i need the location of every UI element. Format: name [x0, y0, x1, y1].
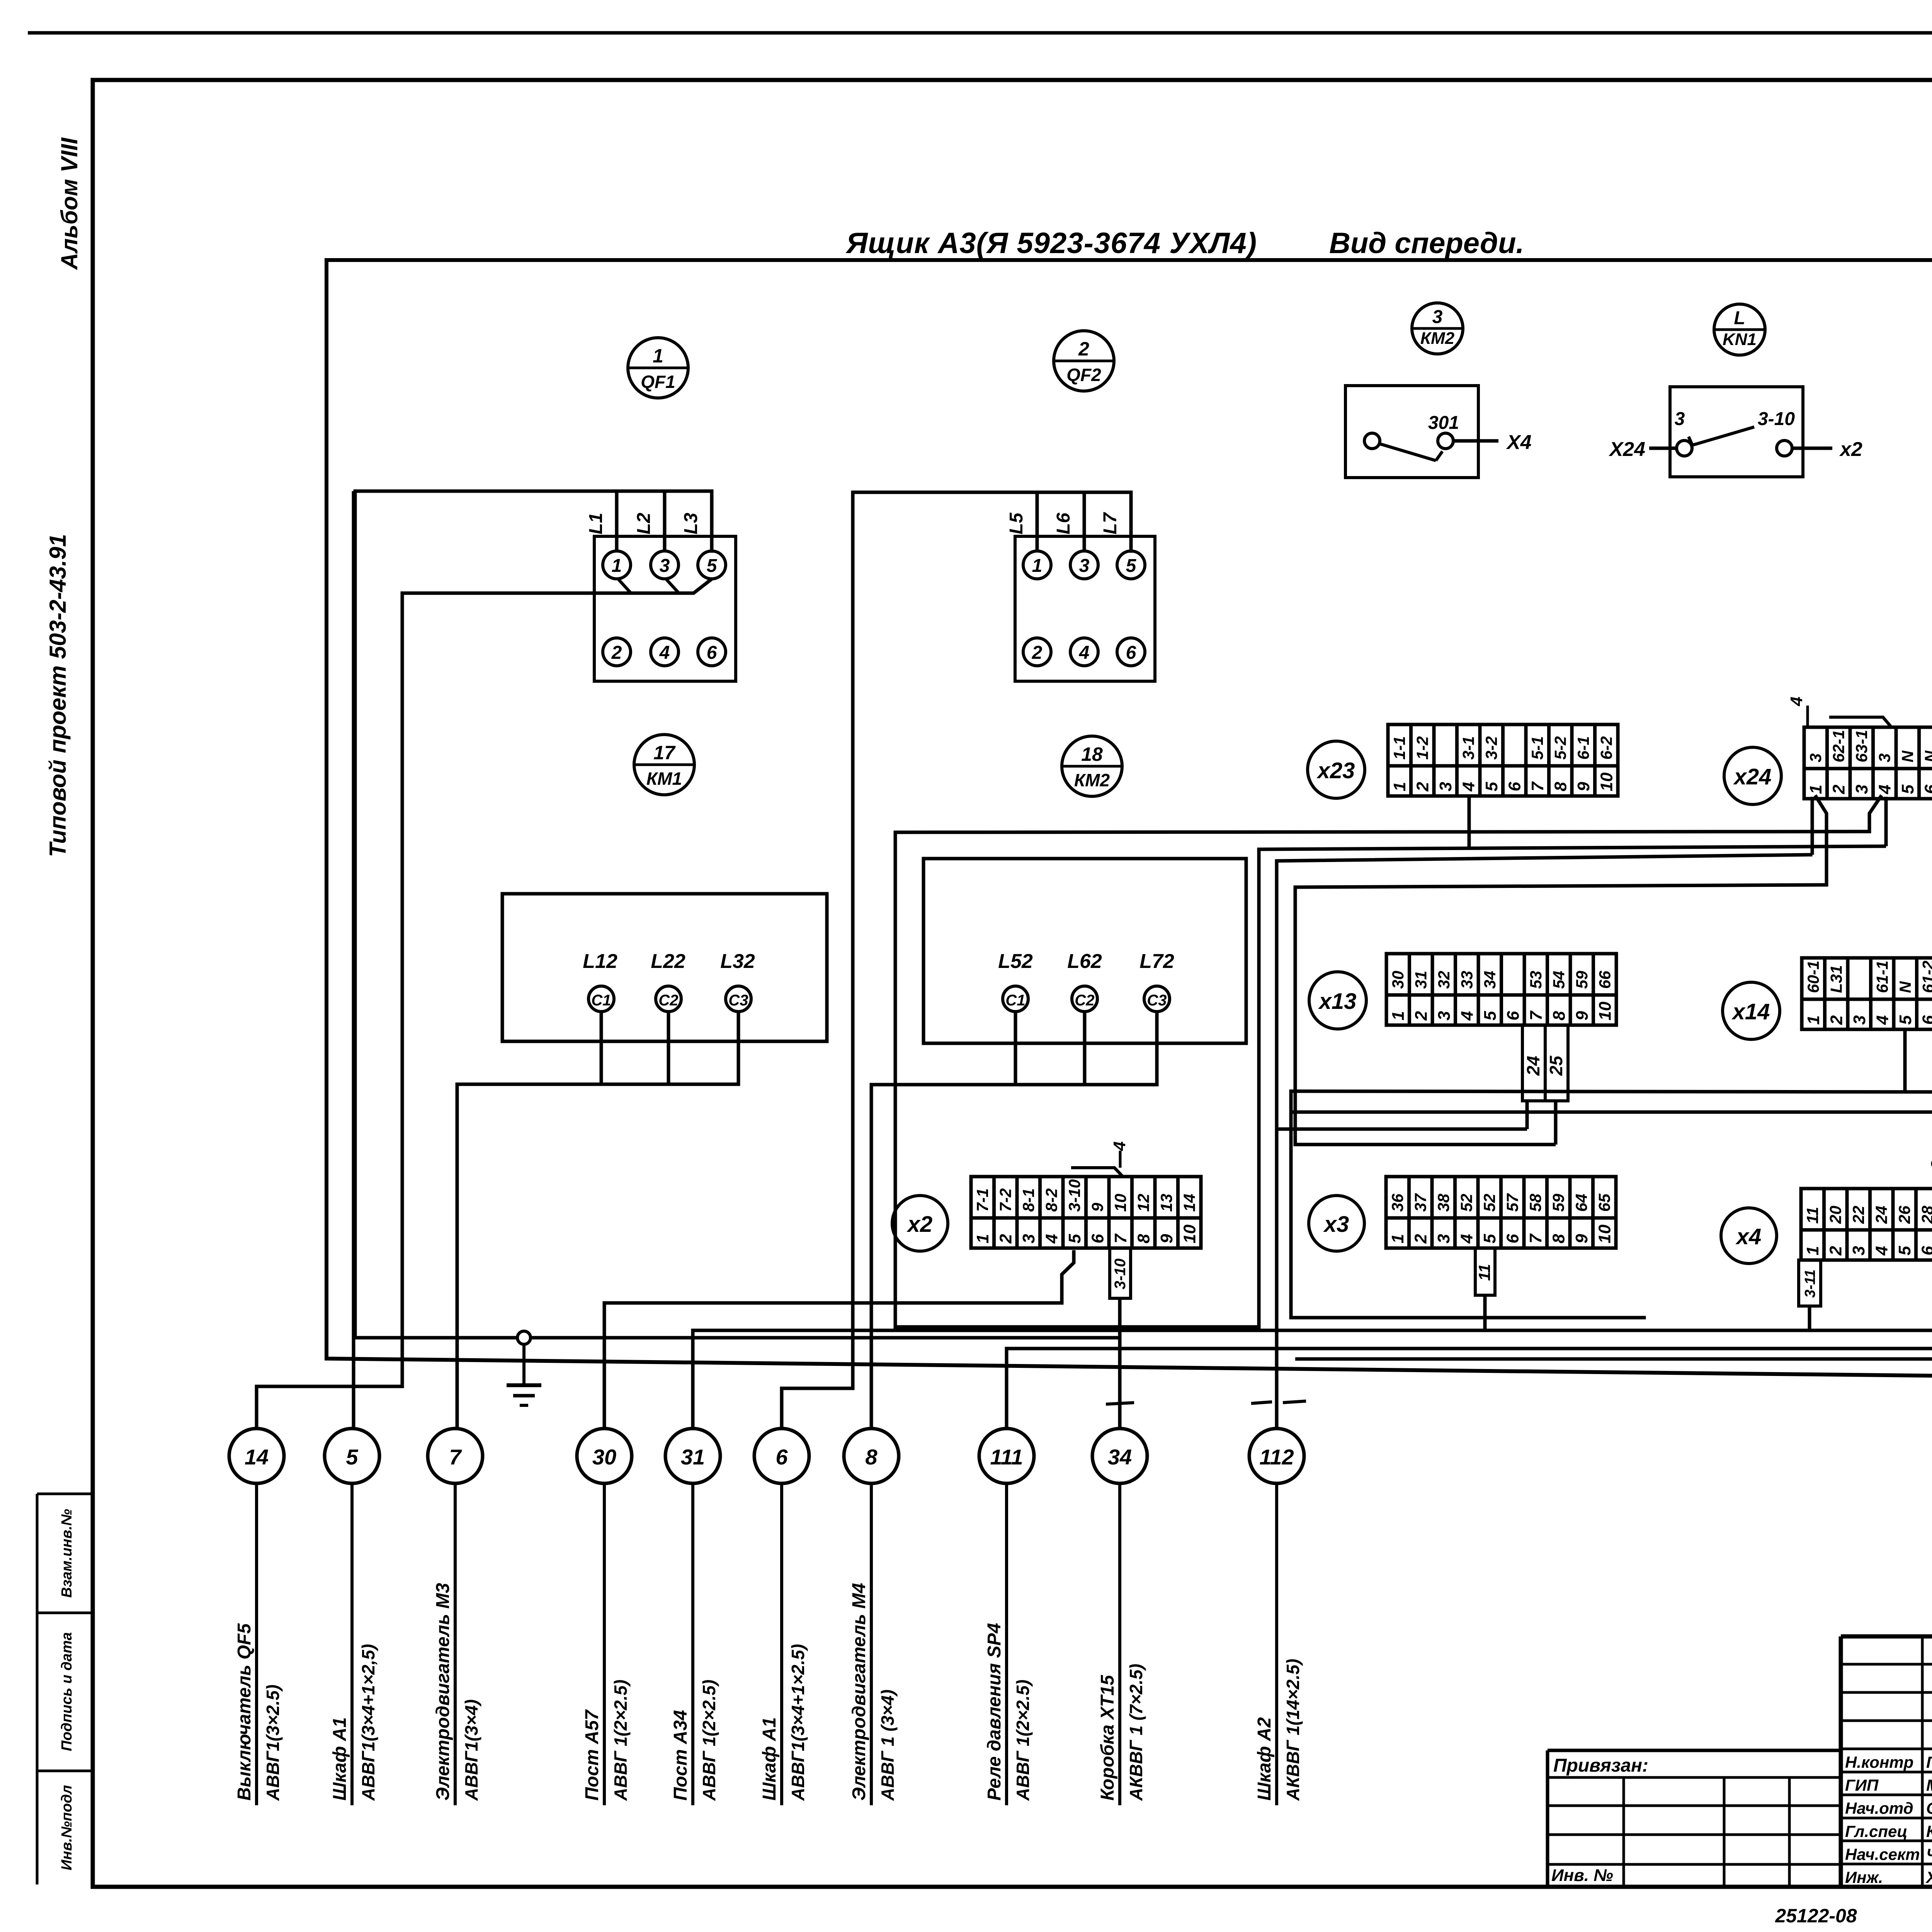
wire cable 30 down	[603, 1483, 606, 1805]
svg-text:Коробка ХТ15: Коробка ХТ15	[1097, 1675, 1118, 1801]
svg-text:30: 30	[1389, 971, 1407, 989]
svg-text:62-1: 62-1	[1830, 730, 1848, 762]
svg-text:4: 4	[1459, 782, 1478, 792]
svg-text:1: 1	[1388, 1234, 1407, 1243]
svg-text:КМ2: КМ2	[1420, 329, 1455, 348]
wire KN1 contact to x2	[1792, 447, 1832, 450]
svg-text:9: 9	[1572, 1234, 1591, 1243]
svg-text:24: 24	[1523, 1056, 1543, 1076]
svg-text:Гл.спец: Гл.спец	[1845, 1822, 1907, 1840]
svg-text:2: 2	[611, 643, 622, 663]
aux contact box of KM2	[1345, 386, 1478, 478]
wire bus to QF2 top terminals	[853, 492, 1131, 1388]
svg-text:3: 3	[1436, 782, 1455, 791]
wire x24 cell1 down a	[1811, 797, 1814, 855]
bundle mark 4 wires at x24	[1821, 717, 1891, 727]
wire enclosure loop around x2 assembly	[895, 832, 1868, 1327]
svg-text:1-2: 1-2	[1413, 736, 1432, 760]
terminal strip designator circle x4	[1721, 1208, 1777, 1264]
wire KM2 motor bus to circle 8	[871, 1085, 1157, 1429]
hanging terminal 3-10 under x2	[1110, 1248, 1131, 1298]
svg-text:53: 53	[1527, 971, 1545, 989]
svg-text:3: 3	[1850, 1015, 1869, 1025]
svg-text:1: 1	[1803, 1246, 1822, 1255]
wire x4 tab 3-11 drop	[1808, 1306, 1811, 1330]
svg-text:6-2: 6-2	[1597, 736, 1616, 760]
svg-text:Х24: Х24	[1608, 438, 1645, 461]
svg-text:112: 112	[1259, 1445, 1294, 1469]
terminal strip designator circle x2	[892, 1196, 948, 1251]
wire cable 111 down	[1005, 1483, 1008, 1805]
svg-text:12: 12	[1134, 1194, 1153, 1212]
wire circle 31 bus to x4 cell7	[693, 1330, 1932, 1429]
terminal strip designator circle x14	[1723, 982, 1780, 1039]
wire jog to circle 6	[782, 1388, 853, 1429]
svg-text:3-10: 3-10	[1065, 1179, 1083, 1212]
svg-text:4: 4	[1079, 643, 1090, 663]
svg-text:Электродвигатель М4: Электродвигатель М4	[849, 1583, 869, 1801]
svg-text:14: 14	[245, 1445, 269, 1469]
wire C1 KM1 down	[600, 1012, 603, 1084]
svg-text:L32: L32	[720, 950, 755, 973]
svg-text:6: 6	[1922, 784, 1932, 794]
svg-text:х2: х2	[1839, 438, 1862, 461]
cable tick at circle 34	[1106, 1403, 1134, 1404]
hanging terminals 24 25 under x13	[1522, 1025, 1568, 1101]
margin table divider 2	[37, 1770, 93, 1772]
svg-text:5: 5	[1480, 1234, 1499, 1243]
svg-text:Х4: Х4	[1506, 431, 1532, 454]
svg-text:x4: x4	[1735, 1224, 1762, 1249]
svg-text:2: 2	[1412, 1011, 1431, 1021]
margin table left edge	[36, 1494, 39, 1884]
svg-text:L62: L62	[1067, 950, 1102, 973]
svg-text:5: 5	[346, 1445, 358, 1469]
svg-text:10: 10	[1597, 772, 1616, 791]
wire cable 112 down	[1275, 1483, 1278, 1805]
svg-text:Шкаф А1: Шкаф А1	[759, 1717, 780, 1801]
svg-text:Привязан:: Привязан:	[1553, 1755, 1648, 1776]
wire tab 24 drop	[1526, 1101, 1529, 1129]
svg-text:ГИП: ГИП	[1845, 1776, 1879, 1794]
cable tick b at circle 112	[1283, 1401, 1306, 1403]
wire C2 KM1 down	[667, 1012, 670, 1084]
svg-text:6: 6	[707, 643, 717, 663]
svg-text:1: 1	[1806, 785, 1825, 794]
svg-text:26: 26	[1895, 1206, 1913, 1224]
svg-text:Осовский: Осовский	[1926, 1799, 1932, 1817]
svg-text:1-1: 1-1	[1390, 736, 1408, 760]
wire bus to tab 25	[1295, 1143, 1556, 1146]
svg-text:Инв. №: Инв. №	[1551, 1866, 1613, 1885]
svg-text:Пост А57: Пост А57	[582, 1709, 602, 1801]
svg-text:28: 28	[1918, 1206, 1932, 1224]
svg-text:8-2: 8-2	[1043, 1188, 1061, 1212]
wire X24 to KN1 contact	[1649, 447, 1677, 450]
svg-text:5-2: 5-2	[1551, 736, 1570, 760]
wire L1 drop	[615, 491, 619, 551]
wire x2 tab 3-10 to circle 34	[1118, 1298, 1122, 1429]
terminal strip x3	[1386, 1177, 1616, 1248]
wire x24 cell4 down b	[1884, 797, 1888, 846]
svg-text:8-1: 8-1	[1019, 1188, 1037, 1212]
svg-text:2: 2	[1827, 1246, 1845, 1256]
svg-text:30: 30	[592, 1445, 616, 1469]
svg-text:6: 6	[776, 1445, 788, 1469]
svg-text:4: 4	[1872, 1246, 1891, 1256]
svg-text:Электродвигатель М3: Электродвигатель М3	[433, 1583, 453, 1801]
svg-text:3: 3	[1876, 753, 1894, 762]
sub panel outline around x3	[1291, 1091, 1644, 1318]
svg-text:3: 3	[1675, 409, 1685, 429]
wire cable 34 down	[1118, 1483, 1121, 1805]
svg-text:Черепахина: Черепахина	[1926, 1845, 1932, 1863]
hanging terminal 3-11 under x4	[1799, 1260, 1821, 1306]
svg-text:3: 3	[1849, 1246, 1868, 1255]
svg-text:L: L	[1734, 308, 1745, 328]
svg-text:Инж.: Инж.	[1845, 1868, 1883, 1886]
svg-text:3-10: 3-10	[1758, 409, 1795, 429]
wire PE bus	[354, 1336, 1119, 1340]
wire cable 14 down	[255, 1483, 258, 1805]
svg-text:N: N	[1898, 750, 1917, 762]
wire C3 KM1 down	[737, 1012, 740, 1084]
svg-text:5: 5	[1896, 1015, 1915, 1025]
svg-text:3: 3	[1432, 307, 1443, 327]
cable circle 7	[428, 1429, 483, 1483]
svg-text:64: 64	[1572, 1194, 1590, 1212]
svg-text:61-2: 61-2	[1919, 961, 1932, 993]
svg-text:5: 5	[1898, 784, 1917, 794]
wire bus to QF1 top terminals / down to circle 5	[355, 491, 712, 1338]
terminal strip x2	[971, 1177, 1201, 1248]
svg-text:Взам.инв.№: Взам.инв.№	[59, 1509, 75, 1598]
svg-text:6: 6	[1504, 1011, 1523, 1020]
wire lower bus from QF1 terminals	[402, 580, 711, 1386]
wire C2 KM2 down	[1083, 1012, 1087, 1085]
svg-text:АВВГ 1 (3×4): АВВГ 1 (3×4)	[878, 1689, 898, 1801]
cable circle 112	[1249, 1429, 1304, 1483]
svg-text:L72: L72	[1139, 950, 1174, 973]
circuit breaker position 1 QF1	[628, 338, 688, 398]
svg-text:3-1: 3-1	[1459, 736, 1478, 760]
svg-text:14: 14	[1180, 1194, 1199, 1212]
svg-text:52: 52	[1480, 1194, 1498, 1212]
svg-text:6: 6	[1919, 1015, 1932, 1025]
svg-text:АВВГ1(3×4): АВВГ1(3×4)	[461, 1699, 481, 1801]
svg-text:Нач.отд: Нач.отд	[1845, 1799, 1913, 1817]
svg-text:4: 4	[1110, 1141, 1129, 1151]
contactor KM2 power box	[923, 859, 1246, 1043]
cable tick a at circle 112	[1251, 1402, 1272, 1403]
svg-text:Хашибашева: Хашибашева	[1925, 1868, 1932, 1886]
cabinet A3 outline box	[327, 260, 1932, 1379]
wire x14 cell5 down	[1903, 1029, 1907, 1092]
svg-text:66: 66	[1596, 971, 1614, 989]
wire bus to tab 24	[1277, 1128, 1527, 1131]
svg-text:2: 2	[1413, 782, 1432, 792]
cable circle 14	[229, 1429, 284, 1483]
wire circle 5 riser	[352, 491, 355, 1429]
svg-text:9: 9	[1573, 1011, 1592, 1020]
svg-text:L2: L2	[634, 513, 654, 534]
wire from KM2 contact to X4	[1453, 439, 1498, 443]
svg-text:34: 34	[1481, 971, 1499, 989]
svg-text:3: 3	[1434, 1234, 1453, 1243]
svg-text:9: 9	[1157, 1234, 1176, 1243]
bundle mark 4 wires at x2	[1063, 1168, 1123, 1177]
svg-text:L3: L3	[681, 513, 701, 534]
svg-text:2: 2	[1412, 1234, 1430, 1244]
svg-text:Н.контр: Н.контр	[1845, 1753, 1913, 1771]
svg-text:АКВВГ 1(14×2.5): АКВВГ 1(14×2.5)	[1283, 1659, 1303, 1801]
svg-text:Гецко: Гецко	[1926, 1753, 1932, 1771]
svg-text:АВВГ 1(2×2.5): АВВГ 1(2×2.5)	[699, 1680, 719, 1801]
svg-text:4: 4	[1787, 697, 1806, 706]
svg-text:52: 52	[1458, 1194, 1476, 1212]
wire L6 drop	[1083, 492, 1086, 551]
svg-text:С1: С1	[591, 992, 611, 1009]
svg-text:4: 4	[1458, 1011, 1477, 1021]
svg-text:L5: L5	[1006, 512, 1027, 534]
ground symbol	[507, 1331, 541, 1405]
svg-text:60-1: 60-1	[1804, 961, 1822, 993]
contactor position 18 KM2	[1062, 736, 1122, 796]
svg-text:x14: x14	[1731, 999, 1770, 1024]
svg-text:С2: С2	[658, 992, 678, 1009]
wire bus x24 to tab25 drop	[1295, 885, 1825, 1145]
svg-text:x24: x24	[1733, 764, 1772, 789]
svg-text:3: 3	[1928, 1160, 1932, 1169]
svg-text:8: 8	[865, 1445, 878, 1469]
svg-text:10: 10	[1111, 1194, 1129, 1212]
svg-text:37: 37	[1412, 1193, 1430, 1212]
svg-text:1: 1	[653, 345, 663, 367]
wire cable 6 down	[780, 1483, 783, 1805]
svg-text:Климов: Климов	[1926, 1822, 1932, 1840]
svg-text:3-10: 3-10	[1112, 1259, 1129, 1289]
svg-text:8: 8	[1134, 1234, 1153, 1243]
svg-text:301: 301	[1428, 413, 1459, 433]
svg-text:7: 7	[1526, 1233, 1545, 1243]
wire x23 cell4 down	[1468, 796, 1471, 848]
wire jog to circle 14	[257, 1386, 402, 1429]
svg-text:22: 22	[1849, 1206, 1867, 1224]
svg-text:31: 31	[1412, 971, 1430, 989]
wire cable 8 down	[870, 1483, 873, 1805]
cable circle 34	[1092, 1429, 1147, 1483]
svg-text:63-1: 63-1	[1852, 730, 1871, 762]
svg-text:АВВГ1(3×4+1×2.5): АВВГ1(3×4+1×2.5)	[788, 1644, 808, 1801]
terminal strip designator circle x13	[1309, 972, 1366, 1029]
svg-text:1: 1	[1032, 556, 1043, 576]
terminal strip designator circle x24	[1724, 747, 1781, 804]
svg-text:3: 3	[1435, 1011, 1454, 1020]
svg-text:Выключатель QF5: Выключатель QF5	[234, 1623, 255, 1801]
margin table divider 1	[37, 1612, 93, 1614]
svg-text:1: 1	[973, 1234, 992, 1243]
svg-text:61-1: 61-1	[1873, 961, 1891, 993]
svg-text:Пост А34: Пост А34	[670, 1710, 691, 1801]
svg-text:111: 111	[990, 1445, 1023, 1469]
svg-text:7-2: 7-2	[997, 1188, 1015, 1212]
svg-text:7: 7	[1111, 1233, 1130, 1243]
svg-text:Шкаф А2: Шкаф А2	[1254, 1717, 1275, 1801]
wire cable 31 down	[691, 1483, 694, 1805]
svg-text:АВВГ1(3×4+1×2,5): АВВГ1(3×4+1×2,5)	[358, 1644, 378, 1801]
svg-text:17: 17	[653, 742, 676, 764]
svg-text:2: 2	[1032, 643, 1043, 663]
svg-text:С1: С1	[1005, 992, 1025, 1009]
svg-text:25: 25	[1546, 1055, 1566, 1076]
terminal strip x13	[1386, 954, 1616, 1025]
svg-text:2: 2	[997, 1234, 1015, 1244]
svg-text:4: 4	[1876, 785, 1895, 794]
wire x2 cell5 down	[1062, 1252, 1074, 1303]
svg-text:Типовой проект 503-2-43.91: Типовой проект 503-2-43.91	[45, 534, 71, 857]
svg-text:Шкаф А1: Шкаф А1	[330, 1717, 350, 1801]
svg-text:Меленчук: Меленчук	[1926, 1776, 1932, 1794]
wire bus to x14 cell5	[1291, 1091, 1932, 1092]
svg-text:x3: x3	[1323, 1212, 1349, 1237]
svg-text:N: N	[1922, 750, 1932, 762]
svg-text:5: 5	[707, 556, 718, 576]
aux contact box of KN1	[1670, 387, 1803, 477]
margin table top line	[37, 1493, 93, 1495]
svg-text:КМ1: КМ1	[646, 769, 682, 789]
svg-text:7-1: 7-1	[973, 1188, 992, 1212]
svg-text:Нач.сект: Нач.сект	[1845, 1845, 1920, 1863]
svg-text:6-1: 6-1	[1574, 736, 1592, 760]
wire bus x24 to vertical of circle 112	[1277, 855, 1811, 1429]
svg-text:5: 5	[1065, 1234, 1084, 1243]
svg-text:6: 6	[1088, 1234, 1107, 1243]
wire bus to x23/x24 row2	[1259, 846, 1886, 849]
svg-text:5: 5	[1481, 1011, 1500, 1020]
terminal strip designator circle x3	[1309, 1196, 1364, 1251]
svg-text:КМ2: КМ2	[1074, 770, 1110, 790]
wire tap terminal 3	[667, 580, 679, 593]
QF1 terminal box	[594, 536, 736, 681]
terminal strip x23	[1388, 724, 1618, 796]
svg-text:2: 2	[1078, 338, 1089, 360]
svg-text:x13: x13	[1318, 989, 1357, 1014]
contactor KM1 power box	[502, 894, 827, 1041]
terminal strip x24	[1804, 727, 1932, 799]
svg-text:7: 7	[1528, 781, 1547, 791]
svg-text:С3: С3	[1147, 992, 1167, 1009]
title block	[1841, 1636, 1932, 1888]
cable circle 111	[979, 1429, 1034, 1483]
cable circle 30	[577, 1429, 632, 1483]
svg-text:33: 33	[1458, 971, 1476, 989]
svg-text:57: 57	[1503, 1193, 1522, 1212]
wire cable 5 down	[350, 1483, 354, 1805]
svg-text:58: 58	[1526, 1194, 1544, 1212]
svg-text:L12: L12	[583, 950, 617, 973]
svg-text:С3: С3	[728, 992, 748, 1009]
svg-text:1: 1	[1804, 1015, 1823, 1025]
wire bus to x14 cell8	[1291, 1111, 1932, 1114]
svg-text:25122-08: 25122-08	[1775, 1905, 1857, 1927]
svg-text:20: 20	[1827, 1206, 1845, 1224]
svg-text:5: 5	[1895, 1246, 1914, 1255]
svg-text:3: 3	[660, 556, 670, 576]
svg-text:L31: L31	[1827, 965, 1845, 993]
svg-text:QF2: QF2	[1066, 365, 1101, 385]
wire L2 drop	[663, 491, 667, 551]
svg-text:АКВВГ 1 (7×2.5): АКВВГ 1 (7×2.5)	[1126, 1664, 1146, 1801]
svg-text:5-1: 5-1	[1528, 736, 1546, 760]
svg-text:24: 24	[1872, 1206, 1891, 1224]
svg-text:2: 2	[1827, 1015, 1846, 1025]
svg-text:4: 4	[1043, 1234, 1061, 1244]
svg-text:Альбом VIII: Альбом VIII	[56, 137, 82, 270]
svg-text:1: 1	[1390, 782, 1409, 791]
svg-text:11: 11	[1803, 1207, 1821, 1224]
wire L5 drop	[1036, 492, 1039, 551]
cable circle 8	[844, 1429, 899, 1483]
svg-text:Вид спереди.: Вид спереди.	[1329, 227, 1524, 260]
svg-text:3: 3	[1806, 753, 1825, 762]
svg-text:L22: L22	[651, 950, 685, 973]
svg-text:8: 8	[1550, 1011, 1569, 1020]
terminal strip designator circle x23	[1308, 741, 1365, 798]
wire bus to x4 cell8	[1295, 1357, 1932, 1361]
wire circle 111 bus to x4 cells 9-10	[1007, 1349, 1932, 1429]
svg-text:10: 10	[1595, 1225, 1614, 1243]
svg-text:9: 9	[1574, 782, 1593, 791]
svg-text:5: 5	[1126, 556, 1137, 576]
svg-text:54: 54	[1550, 971, 1568, 989]
svg-text:7: 7	[1527, 1010, 1546, 1020]
svg-text:Ящик А3(Я 5923-3674 УХЛ4): Ящик А3(Я 5923-3674 УХЛ4)	[845, 227, 1257, 260]
wire C1 KM2 down	[1014, 1012, 1017, 1085]
contact position 3 KM2	[1412, 303, 1463, 354]
svg-text:N: N	[1896, 981, 1914, 993]
svg-text:QF1: QF1	[641, 372, 675, 392]
svg-text:С2: С2	[1075, 992, 1094, 1009]
svg-text:31: 31	[681, 1445, 705, 1469]
svg-text:L1: L1	[586, 513, 606, 534]
wire tap terminal 1	[619, 580, 631, 593]
svg-text:6: 6	[1503, 1234, 1522, 1243]
svg-text:11: 11	[1475, 1264, 1493, 1281]
svg-text:5: 5	[1482, 782, 1501, 791]
svg-text:6: 6	[1505, 782, 1524, 791]
contact position L KN1	[1714, 304, 1765, 355]
svg-text:36: 36	[1388, 1194, 1406, 1212]
svg-text:4: 4	[1458, 1234, 1476, 1244]
cabinet A3 outline bottom edge	[327, 1359, 1932, 1379]
svg-text:65: 65	[1595, 1194, 1614, 1212]
svg-text:18: 18	[1081, 743, 1103, 765]
svg-text:38: 38	[1434, 1194, 1452, 1212]
wire circle 30 to x2 cell5	[604, 1303, 1062, 1429]
svg-text:4: 4	[659, 643, 670, 663]
svg-text:3: 3	[1019, 1234, 1038, 1243]
wire cable 7 down	[454, 1483, 457, 1805]
svg-text:L7: L7	[1100, 512, 1121, 534]
sheet outer top border	[28, 31, 1932, 35]
svg-text:1: 1	[612, 556, 622, 576]
svg-text:KN1: KN1	[1723, 330, 1757, 349]
svg-text:Реле давления SР4: Реле давления SР4	[984, 1623, 1005, 1801]
svg-text:1: 1	[1389, 1011, 1408, 1020]
hanging terminal 11 under x3	[1475, 1248, 1495, 1295]
circuit breaker position 2 QF2	[1054, 331, 1114, 391]
svg-text:32: 32	[1435, 971, 1453, 989]
